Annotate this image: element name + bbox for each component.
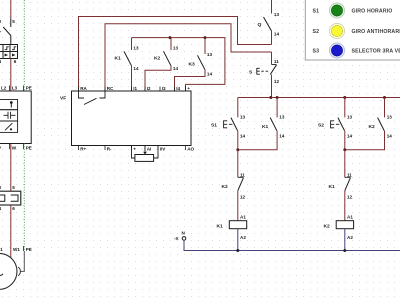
svg-text:K3: K3 xyxy=(189,62,196,68)
PE connection arc at motor xyxy=(18,267,20,276)
wire RC up-over to S contact xyxy=(105,24,272,91)
S1 actuator xyxy=(224,120,233,128)
svg-text:13: 13 xyxy=(347,115,353,120)
interlock contact K1 (NC) xyxy=(344,150,346,178)
svg-text:K1: K1 xyxy=(262,124,269,130)
terminal -X N xyxy=(182,237,186,241)
motor M circle xyxy=(0,253,17,289)
VF bottom terminal ticks xyxy=(79,146,186,151)
svg-text:GIRO ANTIHORARIO: GIRO ANTIHORARIO xyxy=(352,29,400,35)
svg-text:SELECTOR 3RA VELOCIDAD: SELECTOR 3RA VELOCIDAD xyxy=(352,49,400,55)
svg-text:R-: R- xyxy=(107,147,112,152)
breaker QM trip unit box xyxy=(0,45,18,59)
breaker magnetic element symbol (pole 3) xyxy=(5,54,9,57)
S2 actuator xyxy=(331,120,340,128)
VF drive box xyxy=(72,91,192,146)
svg-text:11: 11 xyxy=(240,173,245,178)
svg-text:13: 13 xyxy=(274,12,280,17)
wire K-contact 13 bus to + terminal xyxy=(132,38,225,91)
junction dot K2-aux tap xyxy=(383,96,386,99)
junction dot N branch A xyxy=(236,249,239,252)
aux contact K2 (NO) xyxy=(384,98,386,118)
svg-text:RA: RA xyxy=(80,86,87,91)
svg-text:S2: S2 xyxy=(318,123,324,129)
wire breaker to filter L3 xyxy=(10,59,12,92)
svg-text:+: + xyxy=(133,147,136,152)
junction dot S2 tap xyxy=(343,96,346,99)
svg-text:A1: A1 xyxy=(240,215,246,220)
filter varistor symbol xyxy=(5,123,12,130)
junction dot N branch B xyxy=(343,249,346,252)
svg-text:A2: A2 xyxy=(240,235,246,240)
svg-text:11: 11 xyxy=(274,59,279,64)
pot + lead xyxy=(132,146,135,159)
breaker QM pole contact (pin 5) xyxy=(3,19,11,45)
breaker thermal element symbol (pole 3) xyxy=(5,47,9,50)
aux contact K1 (NO) xyxy=(276,98,278,118)
interlock contact K2 (NC) xyxy=(237,150,239,178)
svg-text:Q: Q xyxy=(258,22,262,28)
svg-text:S1: S1 xyxy=(211,123,217,129)
overload heater element (pole 3, cut) xyxy=(0,195,5,201)
svg-text:AI: AI xyxy=(147,147,152,152)
junction dot K3 bus xyxy=(204,36,207,39)
svg-text:14: 14 xyxy=(240,134,246,139)
wire RA up-over to Q contact xyxy=(79,17,272,92)
svg-text:13: 13 xyxy=(133,46,139,51)
svg-text:K2: K2 xyxy=(324,224,331,230)
filter capacitor symbol xyxy=(4,112,16,119)
svg-text:12: 12 xyxy=(347,195,353,200)
control bus L xyxy=(238,97,400,99)
svg-text:14: 14 xyxy=(173,66,179,71)
breaker QM pole contact fragment (pin 3, cut) xyxy=(0,27,1,32)
pushbutton S2 (NO) xyxy=(344,98,346,118)
svg-text:K2: K2 xyxy=(369,124,376,130)
junction dot K1-aux tap xyxy=(276,96,279,99)
svg-text:14: 14 xyxy=(347,134,353,139)
VF internal RA-RC relay contact xyxy=(79,91,106,105)
svg-text:11: 11 xyxy=(347,173,352,178)
svg-text:W1: W1 xyxy=(13,247,20,252)
svg-text:W: W xyxy=(12,146,17,151)
motor sine symbol xyxy=(0,272,3,275)
svg-text:A1: A1 xyxy=(347,215,353,220)
overload relay FR box xyxy=(0,191,21,205)
svg-text:K2: K2 xyxy=(154,56,161,62)
filter FL box xyxy=(0,91,31,144)
VF top terminal ticks xyxy=(79,87,186,92)
wire coil K2 to N xyxy=(344,229,346,251)
contact K2 (NO) to I2 xyxy=(170,38,172,50)
svg-text:14: 14 xyxy=(133,66,139,71)
svg-text:PE: PE xyxy=(26,247,32,252)
svg-text:K2: K2 xyxy=(222,184,229,190)
svg-text:L3: L3 xyxy=(12,86,18,91)
svg-text:VF: VF xyxy=(60,96,66,102)
svg-text:13: 13 xyxy=(207,52,213,57)
svg-text:I3: I3 xyxy=(162,86,166,91)
svg-text:K1: K1 xyxy=(329,184,336,190)
svg-text:I1: I1 xyxy=(133,86,137,91)
svg-text:12: 12 xyxy=(240,195,246,200)
svg-text:L2: L2 xyxy=(1,86,7,91)
svg-text:K1: K1 xyxy=(217,224,224,230)
svg-text:V1: V1 xyxy=(0,247,3,252)
svg-text:6: 6 xyxy=(12,206,15,211)
potentiometer P body xyxy=(135,155,154,162)
filter inner cells xyxy=(0,100,18,133)
svg-text:R+: R+ xyxy=(80,147,86,152)
svg-text:12: 12 xyxy=(274,79,280,84)
wire PE green dash-dot to motor xyxy=(23,144,25,252)
svg-text:K1: K1 xyxy=(115,56,122,62)
contact K1 (NO) to I1 xyxy=(131,38,133,50)
svg-text:5: 5 xyxy=(12,19,15,24)
wire overload to motor xyxy=(10,205,12,258)
svg-text:14: 14 xyxy=(387,134,393,139)
selector S (NC contact 11-12) xyxy=(271,52,273,65)
svg-text:RC: RC xyxy=(107,86,114,91)
svg-text:14: 14 xyxy=(279,134,285,139)
neutral bus N xyxy=(184,240,400,250)
wire L3 phase from top into breaker xyxy=(10,0,12,19)
svg-text:0V: 0V xyxy=(160,147,167,152)
svg-text:I2: I2 xyxy=(147,86,151,91)
PE wire solid tail to motor frame xyxy=(20,251,24,271)
svg-text:14: 14 xyxy=(274,32,280,37)
svg-text:I4: I4 xyxy=(176,86,180,91)
svg-text:13: 13 xyxy=(279,115,285,120)
filter inductor symbol xyxy=(10,101,13,104)
junction dot branch A xyxy=(236,148,239,151)
svg-text:PE: PE xyxy=(26,86,32,91)
breaker magnetic element symbol (pole 5) xyxy=(12,54,16,57)
svg-text:S3: S3 xyxy=(313,49,320,55)
selector S actuator symbol xyxy=(257,68,268,75)
contact Q (NO breaker aux) xyxy=(271,0,273,14)
svg-text:14: 14 xyxy=(207,72,213,77)
svg-text:6: 6 xyxy=(14,59,17,64)
junction dot S-12 xyxy=(269,96,272,99)
wire PE green dash-dot vertical top xyxy=(23,0,25,91)
coil K2 xyxy=(336,221,353,229)
contact K3 (NO) to I4 xyxy=(204,38,206,54)
wire coil K1 to N xyxy=(237,229,239,251)
coil K1 xyxy=(229,221,246,229)
legend S1 button icon green xyxy=(329,3,344,18)
pushbutton S1 (NO) xyxy=(237,98,239,118)
svg-text:PE: PE xyxy=(26,146,32,151)
pot wiper arrow from AI xyxy=(144,146,146,152)
legend S3 button icon blue xyxy=(329,43,344,58)
svg-text:AO: AO xyxy=(187,147,194,152)
svg-text:S2: S2 xyxy=(313,29,320,35)
svg-text:13: 13 xyxy=(173,46,179,51)
svg-text:5: 5 xyxy=(12,185,15,190)
wire filter W to overload xyxy=(10,144,12,192)
svg-text:GIRO HORARIO: GIRO HORARIO xyxy=(352,9,393,15)
junction dot K2 bus xyxy=(169,36,172,39)
legend box xyxy=(305,0,400,60)
svg-text:S1: S1 xyxy=(313,9,320,15)
svg-text:A2: A2 xyxy=(347,235,353,240)
svg-text:+: + xyxy=(187,86,190,91)
svg-text:13: 13 xyxy=(387,115,393,120)
junction dot branch B xyxy=(343,148,346,151)
pot 0V lead xyxy=(154,146,158,159)
overload heater element (pole 5) xyxy=(11,195,18,201)
legend S2 button icon yellow xyxy=(329,23,344,38)
breaker thermal element symbol (pole 5) xyxy=(12,47,16,50)
svg-text:13: 13 xyxy=(240,115,246,120)
